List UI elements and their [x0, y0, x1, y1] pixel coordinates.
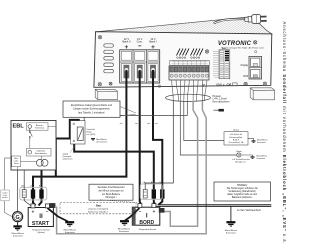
relay K2 label — [87, 128, 96, 136]
svg-text:−: − — [138, 43, 142, 50]
temp sensor pad start redraw — [50, 203, 56, 208]
svg-text:zu den Verbrauchern: zu den Verbrauchern — [237, 208, 262, 212]
BT1 minus wire to ground — [125, 208, 140, 221]
svg-text:laut Tabelle 1 einhalten!: laut Tabelle 1 einhalten! — [78, 110, 105, 114]
note zentraler box — [89, 184, 133, 200]
wire to lamp — [180, 101, 236, 155]
charger U1 front panel — [94, 32, 272, 88]
EBL charge box — [27, 148, 52, 156]
wire W3 fuse to battery — [159, 199, 163, 205]
ground G1 — [65, 222, 74, 226]
EMV CE marks — [217, 83, 238, 87]
wire to relay coil — [84, 101, 187, 122]
EBL mains unit box — [12, 156, 21, 167]
polarity marks — [125, 43, 156, 51]
EBL relay K1 box — [27, 123, 49, 130]
fuse F3 white — [22, 190, 26, 198]
alternator line — [5, 158, 11, 190]
svg-text:Bedarf aus Tabelle 1: Bedarf aus Tabelle 1 — [88, 210, 109, 213]
BT1 post plus — [152, 204, 156, 208]
temp sensor pad bord redraw — [159, 208, 165, 213]
svg-text:EMV: EMV — [217, 83, 223, 87]
wire EBL edge W5 — [55, 139, 57, 177]
BT1 post minus — [138, 204, 142, 208]
svg-text:Hinweis:: Hinweis: — [213, 96, 222, 98]
LED — [255, 51, 257, 53]
ground G3 — [226, 222, 235, 226]
consumers ground drop — [230, 206, 232, 221]
note zentraler callout — [100, 200, 137, 203]
wire W4 fuse to battery — [154, 199, 156, 205]
terminal labels — [122, 37, 157, 44]
fuse F5 — [160, 189, 164, 198]
svg-text:Li-Pb, 1,5mm²: Li-Pb, 1,5mm² — [213, 98, 228, 101]
svg-text:Karosserie: Karosserie — [119, 230, 130, 233]
svg-text:Karosserie: Karosserie — [65, 231, 76, 234]
option1 ground wire — [248, 138, 254, 141]
svg-text:AC Power cord: AC Power cord — [249, 47, 264, 50]
svg-text:Option: Option — [233, 129, 239, 132]
BT2 minus wire to ground — [47, 208, 68, 222]
AC plug P1 — [245, 14, 267, 24]
svg-text:(Trennrelais) 1 A: (Trennrelais) 1 A — [229, 141, 244, 144]
wire relay feed W4 — [74, 144, 154, 190]
scribble mark — [177, 49, 204, 56]
vent slots — [104, 44, 114, 73]
connector J1 9-pin — [169, 66, 209, 80]
battery BT1 BORD body — [132, 207, 160, 225]
wire fuse F3 down — [24, 198, 30, 206]
svg-text:Verkabelung (Kabelbrand),: Verkabelung (Kabelbrand), — [228, 190, 256, 193]
svg-text:Karosserie: Karosserie — [13, 234, 24, 237]
DIP switch S1 — [213, 47, 230, 78]
svg-text:Starterbatterie: Starterbatterie — [35, 152, 47, 155]
svg-text:−: − — [46, 209, 49, 214]
AC cord W-AC — [214, 19, 246, 23]
svg-text:sw: sw — [135, 123, 138, 125]
wire minus W2 — [140, 70, 141, 205]
jack J2 display — [251, 58, 260, 66]
screw Bmid1 — [158, 85, 161, 88]
svg-text:Option: Option — [236, 150, 242, 153]
svg-text:Minuspol !: Minuspol ! — [106, 196, 117, 199]
generator G — [13, 212, 23, 222]
option2 ground wire — [241, 155, 253, 157]
note hinweis box — [214, 182, 271, 201]
svg-text:daher möglichst nahe an den: daher möglichst nahe an den — [227, 193, 258, 196]
temp sensor pad bord — [159, 208, 165, 213]
screw BR2 — [263, 82, 266, 85]
BT2 post plus — [31, 204, 35, 208]
consumers line bottom — [156, 205, 271, 207]
fuse F1 — [31, 190, 35, 199]
wire G to ground — [17, 222, 19, 226]
wire W1 fuse to battery — [33, 199, 36, 206]
svg-text:anklemmen): anklemmen) — [63, 158, 73, 160]
svg-text:BORD: BORD — [139, 220, 154, 226]
ground G4 — [120, 221, 129, 225]
stripped wire icon — [214, 109, 222, 111]
svg-text:Karosserie: Karosserie — [257, 142, 266, 144]
note empfohlene box — [63, 101, 120, 117]
screw BL2 — [109, 82, 112, 85]
wire G sense — [17, 170, 19, 211]
ground G6 — [251, 157, 255, 158]
svg-text:o.ä. (EVS): o.ä. (EVS) — [87, 134, 96, 136]
svg-text:I: I — [146, 212, 148, 219]
svg-text:+: + — [153, 209, 156, 214]
alternator line 2 — [5, 201, 12, 217]
fuse panel gray BORD — [140, 184, 162, 199]
svg-text:II: II — [39, 213, 43, 220]
screw BR1 — [244, 82, 247, 85]
temp sensor pad start — [50, 203, 56, 208]
jack J3 bus — [251, 69, 260, 78]
EBL relay contact — [29, 128, 32, 141]
ground G5 — [252, 141, 256, 142]
wire bank1 plus W3 — [153, 70, 162, 189]
fuse F4 — [152, 189, 156, 198]
svg-text:rot: rot — [120, 122, 123, 125]
battery BT2 START shadow — [50, 208, 54, 227]
consumers line top — [158, 204, 272, 206]
charger right foot — [250, 88, 274, 100]
fuse panel gray START — [20, 187, 47, 200]
svg-text:G: G — [15, 215, 19, 221]
relay block K2 — [71, 121, 86, 144]
EBL box — [11, 121, 56, 171]
svg-text:+: + — [125, 44, 129, 51]
wire fuse F6 thin — [145, 101, 173, 189]
screw TL — [98, 36, 101, 39]
svg-text:separate Leitung(en): separate Leitung(en) — [88, 208, 108, 211]
svg-text:Batt.: Batt. — [222, 47, 227, 50]
ground G2 — [13, 226, 21, 230]
EBL internal wires — [18, 127, 56, 171]
svg-text:Karosserie: Karosserie — [257, 158, 266, 160]
svg-text:Anzeige „D+“: Anzeige „D+“ — [235, 160, 246, 163]
screw Bmid2 — [202, 84, 205, 87]
charger U1 top face — [96, 17, 272, 34]
label strip — [170, 60, 209, 65]
wire EBL to relay W6 — [56, 120, 79, 139]
svg-text:Temperatur-Sensor: Temperatur-Sensor — [32, 229, 50, 232]
svg-text:Anschluss-Schema Sonderfall mi: Anschluss-Schema Sonderfall mit vorhande… — [282, 22, 287, 245]
cable loop ellipse — [166, 94, 211, 101]
hinweis note under charger — [213, 96, 231, 104]
wire EBL bottom stub W7 — [41, 170, 43, 190]
scribble dots — [177, 57, 200, 59]
BT2 post minus — [45, 204, 49, 208]
svg-text:CЄ: CЄ — [227, 83, 232, 87]
screw TR — [254, 41, 257, 44]
fuse F2 — [39, 190, 43, 199]
wire W7 fuse to battery — [39, 199, 42, 206]
svg-text:Temperatur-Sensor: Temperatur-Sensor — [139, 228, 157, 231]
wire bank2 plus W1 — [33, 70, 126, 190]
svg-text:ab Karosserie: ab Karosserie — [96, 142, 107, 144]
alternator label box — [1, 190, 9, 201]
svg-text:Display: Display — [241, 65, 249, 67]
note 4adrig callout — [70, 146, 75, 153]
svg-text:+: + — [32, 210, 35, 215]
screw BL — [98, 83, 101, 86]
svg-text:START: START — [32, 221, 50, 227]
note minusbatt dashed box — [60, 203, 136, 214]
svg-text:Trennrelais: Trennrelais — [35, 126, 44, 129]
svg-text:Karosserie: Karosserie — [226, 231, 237, 234]
temp cable bord gray — [164, 101, 198, 226]
svg-text:BUS: BUS — [243, 76, 248, 78]
note empfohlene callout — [120, 107, 136, 114]
battery BT2 START body — [28, 208, 53, 227]
charger left foot — [95, 89, 117, 99]
temp cable start gray — [57, 101, 207, 234]
svg-text:Batterien platzieren.: Batterien platzieren. — [232, 196, 253, 199]
screw mid-top — [205, 50, 208, 53]
svg-text:VOTRONIC: VOTRONIC — [218, 41, 252, 47]
svg-text:Empfohlene Kabel-Querschnitte: Empfohlene Kabel-Querschnitte und — [71, 103, 113, 107]
ground K2 — [91, 139, 95, 140]
svg-text:HINWEIS:: HINWEIS: — [237, 185, 248, 187]
svg-text:8mm abisolieren: 8mm abisolieren — [213, 100, 231, 103]
svg-text:masch.: masch. — [2, 197, 8, 199]
svg-text:Längen sowie Sicherungswerten: Längen sowie Sicherungswerten — [73, 107, 110, 111]
jack block — [249, 56, 262, 79]
terminal block TB1 — [120, 50, 160, 83]
svg-text:Fahrzeug-Batt.: Fahrzeug-Batt. — [229, 136, 243, 139]
connector harness fan — [172, 80, 207, 101]
svg-text:Die Sicherungen schützen die: Die Sicherungen schützen die — [227, 187, 259, 190]
svg-text:Gerät: Gerät — [14, 162, 19, 165]
fuse F6 white — [143, 189, 147, 198]
battery BT1 BORD shadow — [132, 207, 135, 225]
svg-text:rot: rot — [155, 122, 158, 125]
EBL transformer T1 — [36, 159, 43, 166]
wire to option1 — [184, 101, 224, 141]
svg-text:- Batt.: - Batt. — [94, 205, 101, 208]
svg-text:EBL: EBL — [13, 124, 25, 130]
svg-text:rot: rot — [147, 122, 150, 125]
note 4adrig — [63, 154, 73, 161]
wire fuse F3 up — [23, 170, 25, 190]
svg-text:⚭: ⚭ — [223, 83, 226, 87]
svg-text:(Option): (Option) — [37, 231, 45, 234]
svg-text:+: + — [151, 44, 155, 51]
